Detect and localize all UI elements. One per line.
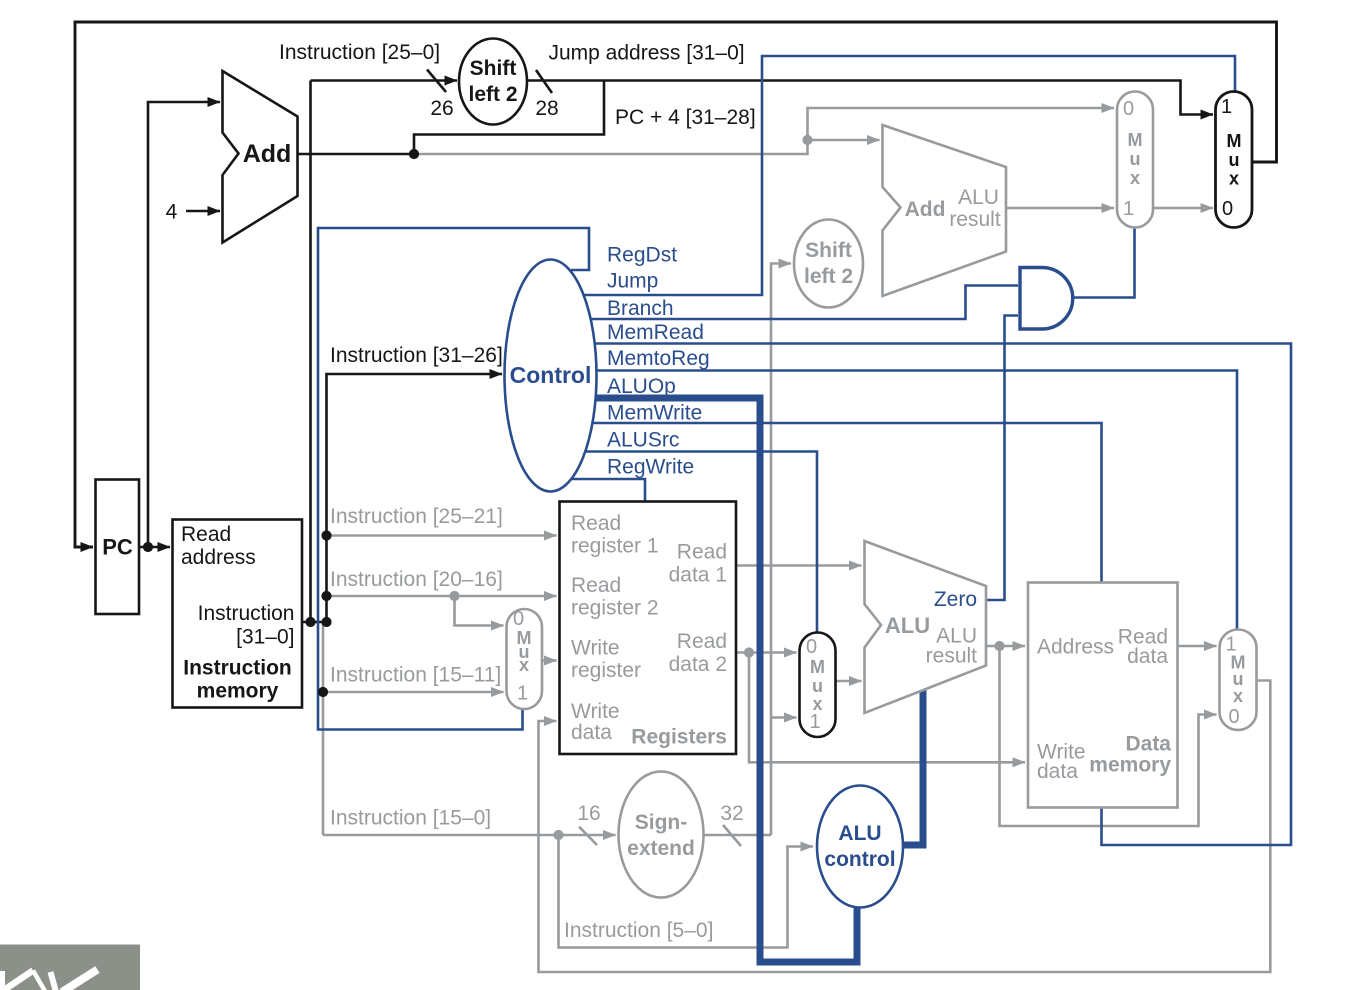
svg-text:memory: memory — [1089, 754, 1171, 777]
svg-text:Read: Read — [571, 512, 621, 535]
svg-text:16: 16 — [577, 802, 600, 825]
svg-text:data: data — [1127, 645, 1168, 668]
wire instruction bus vertical to [25-0] — [309, 81, 312, 623]
wire ALUSrc mux output to ALU — [836, 680, 862, 683]
svg-text:Instruction [25–0]: Instruction [25–0] — [279, 41, 440, 64]
node PC+4 junction — [409, 149, 419, 159]
svg-text:M: M — [1128, 130, 1143, 150]
bus slash 28 — [536, 70, 552, 93]
wire RegDst mux output to write register — [542, 659, 557, 662]
svg-text:MemWrite: MemWrite — [607, 402, 702, 425]
svg-text:u: u — [812, 676, 823, 696]
node read-register-2 branch junction — [449, 591, 459, 601]
svg-text:ALU: ALU — [885, 613, 930, 638]
mux ALU source (ALUSrc) — [800, 633, 836, 738]
svg-text:[31–0]: [31–0] — [236, 625, 294, 648]
node Instruction[25-21] junction — [321, 530, 331, 540]
svg-text:register: register — [571, 659, 641, 682]
svg-text:Registers: Registers — [631, 726, 727, 749]
svg-text:Instruction: Instruction — [198, 602, 295, 625]
wire MemtoReg control to final mux select — [560, 371, 1237, 631]
svg-text:26: 26 — [430, 97, 453, 120]
svg-text:RegWrite: RegWrite — [607, 456, 694, 479]
wire Instruction[15-0] to sign-extend — [323, 834, 616, 837]
wire sign-extend output up to branch shift-left-2 — [771, 264, 791, 836]
shifter Shift left 2 (jump) — [459, 39, 527, 125]
svg-text:Jump address [31–0]: Jump address [31–0] — [549, 42, 745, 65]
svg-text:0: 0 — [1222, 198, 1233, 220]
svg-text:Branch: Branch — [607, 297, 674, 320]
logo Morgan Kaufmann MK — [0, 945, 140, 990]
wire AND gate output to branch mux select — [1073, 226, 1135, 298]
svg-text:ALUSrc: ALUSrc — [607, 429, 679, 452]
svg-text:0: 0 — [806, 636, 817, 658]
svg-text:ALU: ALU — [838, 822, 881, 845]
svg-text:1: 1 — [1221, 96, 1232, 118]
node PC output junction — [143, 542, 153, 552]
svg-text:28: 28 — [535, 97, 558, 120]
wire read data 2 to ALUSrc mux input 0 — [736, 651, 797, 654]
svg-text:u: u — [1130, 149, 1141, 169]
wire jump address[31-0] to jump mux input 1 — [527, 81, 1213, 115]
wire instruction bus vertical to [31-26] — [327, 374, 503, 622]
svg-text:ALU: ALU — [958, 186, 999, 209]
wire read data 2 branch to data memory write data — [749, 653, 1025, 763]
svg-text:PC: PC — [102, 535, 133, 560]
memory Instruction memory — [173, 520, 303, 708]
node instruction bus junction a — [305, 617, 315, 627]
svg-text:x: x — [1233, 686, 1243, 706]
register PC — [96, 480, 140, 615]
svg-text:M: M — [810, 657, 825, 677]
wire ALUSrc control to ALUSrc mux select — [560, 452, 817, 636]
mux memory-to-register (final) — [1220, 630, 1257, 731]
wire Jump control to jump mux select — [560, 56, 1235, 295]
svg-text:0: 0 — [513, 608, 524, 630]
wire jump-mux output to PC (top frame) — [75, 22, 1277, 547]
adder Add (branch target) — [883, 125, 1007, 296]
svg-text:Write: Write — [571, 637, 620, 660]
alu ALU (main) — [865, 541, 987, 713]
svg-text:1: 1 — [809, 711, 820, 733]
memory Data memory — [1028, 583, 1178, 808]
bus slash 16 — [579, 827, 597, 845]
wire Instruction[25-0] to shift-left-2 — [311, 79, 458, 82]
bus slash 26 — [427, 70, 446, 93]
svg-text:Zero: Zero — [934, 588, 977, 611]
svg-text:Add: Add — [905, 198, 946, 221]
svg-text:data 2: data 2 — [669, 653, 727, 676]
svg-text:result: result — [949, 208, 1001, 231]
wire ALU control to ALU select — [898, 690, 923, 845]
svg-text:MemRead: MemRead — [607, 321, 704, 344]
svg-text:Jump: Jump — [607, 270, 658, 293]
svg-text:register 2: register 2 — [571, 597, 659, 620]
svg-text:PC + 4 [31–28]: PC + 4 [31–28] — [615, 106, 756, 129]
svg-text:0: 0 — [1228, 706, 1239, 728]
svg-text:Read: Read — [181, 523, 231, 546]
svg-text:left 2: left 2 — [804, 265, 853, 288]
control unit Control — [505, 260, 597, 492]
svg-text:Add: Add — [243, 140, 292, 168]
gate AND (branch and zero) — [1020, 268, 1073, 330]
svg-text:Read: Read — [677, 630, 727, 653]
wire PC+4 branch into branch adder — [808, 139, 880, 142]
wire Add output (PC+4) — [298, 153, 415, 156]
wire RegDst control to register-destination mux — [318, 228, 589, 730]
svg-text:Instruction [15–0]: Instruction [15–0] — [330, 807, 491, 830]
svg-text:register 1: register 1 — [571, 535, 659, 558]
wire Instruction[25-21] to read register 1 — [327, 534, 557, 537]
wire PC output up to Add input — [148, 102, 220, 547]
wire MemRead control to data memory — [560, 344, 1291, 846]
svg-text:ALUOp: ALUOp — [607, 375, 676, 398]
svg-text:Control: Control — [510, 362, 592, 388]
wire sign-extend output — [704, 834, 772, 837]
svg-text:Write: Write — [571, 700, 620, 723]
svg-text:1: 1 — [1123, 198, 1134, 220]
wire MemWrite control to data memory — [560, 423, 1102, 584]
node Instruction[20-16] junction — [321, 591, 331, 601]
wire branch mux output to jump mux input 0 — [1153, 207, 1213, 210]
svg-text:32: 32 — [720, 802, 743, 825]
wire instruction memory output — [302, 621, 326, 624]
svg-text:x: x — [519, 655, 529, 675]
svg-text:x: x — [1229, 169, 1239, 189]
node PC+4 branch-adder junction — [802, 135, 812, 145]
svg-text:Data: Data — [1125, 733, 1171, 756]
wire Instruction[15-0] vertical — [322, 622, 325, 835]
wire Instruction[15-11] to RegDst mux input 1 — [323, 691, 504, 694]
svg-text:0: 0 — [1123, 98, 1134, 120]
node Instruction[15-0] branch junction — [553, 830, 563, 840]
svg-text:Instruction: Instruction — [183, 657, 292, 680]
node instruction bus junction b — [321, 617, 331, 627]
svg-text:Instruction [15–11]: Instruction [15–11] — [330, 664, 501, 687]
svg-text:Instruction [20–16]: Instruction [20–16] — [330, 568, 503, 591]
wire Instruction[20-16] to read register 2 — [327, 595, 557, 598]
bus slash 32 — [723, 825, 741, 846]
wire data memory read data to final mux input 1 — [1178, 645, 1217, 648]
node read-data-2 branch junction — [744, 647, 754, 657]
wire ALUOp control bus to ALU control — [560, 398, 857, 962]
svg-text:result: result — [926, 645, 978, 668]
shifter Shift left 2 (branch) — [794, 220, 863, 308]
wire PC output to instruction memory — [139, 546, 170, 549]
svg-text:data: data — [1037, 760, 1078, 783]
svg-text:data: data — [571, 721, 612, 744]
svg-text:extend: extend — [627, 837, 695, 860]
mux branch/PC+4 (grey) — [1117, 92, 1153, 228]
svg-text:Shift: Shift — [805, 239, 852, 262]
wire PC+4[31-28] to jump address — [414, 81, 604, 155]
svg-text:x: x — [1130, 168, 1140, 188]
svg-text:Read: Read — [571, 574, 621, 597]
wire branch adder ALU result to branch mux input 1 — [1006, 207, 1114, 210]
svg-text:Address: Address — [1037, 636, 1114, 659]
wire Zero flag to AND gate — [986, 316, 1018, 601]
wire sign-extend branch to ALUSrc mux input 1 — [771, 716, 797, 719]
extender Sign-extend — [619, 772, 704, 898]
wire PC+4 to branch adder and mux0 — [414, 108, 1114, 154]
wire ALU result bypass to final mux input 0 — [1000, 646, 1217, 826]
wire read data 1 to ALU — [736, 564, 862, 567]
mux jump (black) — [1216, 92, 1253, 228]
wire Branch control to AND gate — [560, 286, 1018, 320]
wire constant 4 into Add — [186, 210, 220, 213]
wire Instruction[5-0] to ALU control — [559, 835, 814, 948]
svg-text:RegDst: RegDst — [607, 244, 677, 267]
svg-text:Shift: Shift — [470, 57, 517, 80]
registers Registers — [560, 502, 737, 755]
svg-text:memory: memory — [197, 680, 279, 703]
node Instruction[15-11] junction — [318, 687, 328, 697]
svg-text:1: 1 — [517, 683, 528, 705]
svg-text:Instruction [31–26]: Instruction [31–26] — [330, 344, 503, 367]
svg-text:MemtoReg: MemtoReg — [607, 347, 710, 370]
svg-text:address: address — [181, 546, 256, 569]
svg-text:left 2: left 2 — [468, 83, 517, 106]
mux register destination (RegDst) — [507, 609, 543, 709]
svg-text:Sign-: Sign- — [635, 811, 688, 834]
wire final mux output write-back to registers — [539, 681, 1271, 973]
svg-text:control: control — [824, 848, 895, 871]
svg-text:4: 4 — [166, 201, 178, 224]
svg-text:data 1: data 1 — [669, 564, 727, 587]
svg-text:M: M — [1227, 131, 1242, 151]
control unit ALU control — [817, 786, 903, 908]
wire RegWrite control to registers — [560, 479, 645, 503]
svg-text:u: u — [1229, 150, 1240, 170]
adder Add (PC+4) — [223, 71, 298, 243]
svg-text:Instruction [5–0]: Instruction [5–0] — [564, 919, 713, 942]
wire ALU result to data memory address — [986, 645, 1025, 648]
svg-text:Read: Read — [677, 541, 727, 564]
node ALU-result branch junction — [994, 641, 1004, 651]
wire Instruction[20-16] branch to RegDst mux input 0 — [455, 596, 504, 626]
svg-text:Instruction [25–21]: Instruction [25–21] — [330, 505, 503, 528]
